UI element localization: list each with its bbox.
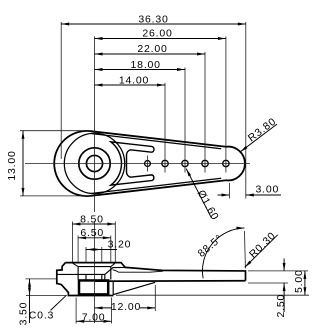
recess left corner chamfer	[73, 263, 78, 266]
dimension 22.00	[95, 43, 206, 55]
hole 0 vertical tick	[147, 156, 149, 172]
recess right corner chamfer	[111, 263, 115, 266]
vertical centerline through hub	[94, 37, 96, 213]
blade far-side top edge	[113, 270, 163, 273]
dimension 8.50	[72, 213, 115, 225]
svg-text:2.50: 2.50	[275, 294, 287, 318]
extension lines 6.50	[77, 236, 79, 263]
side view top outline (boss rim and blade top)	[66, 263, 246, 281]
extension line hole 4	[225, 37, 227, 173]
svg-text:18.00: 18.00	[131, 59, 161, 71]
dimension 14.00	[95, 75, 166, 87]
hub boss circle	[79, 148, 110, 179]
svg-text:3.20: 3.20	[108, 239, 132, 251]
dimension 3.00 (tip)	[218, 183, 282, 199]
extension line arm tip right edge	[245, 22, 247, 199]
extension line blade root bottom right	[248, 282, 288, 284]
extension lines 8.50	[71, 222, 73, 263]
extension line blade top right	[248, 270, 308, 272]
svg-text:6.50: 6.50	[80, 227, 104, 239]
extension lines 7.00	[75, 298, 77, 324]
fork lightening cutout	[111, 142, 154, 185]
dimension 6.50	[78, 227, 111, 239]
radius leader R3.80	[240, 115, 278, 151]
hub center hole	[86, 155, 102, 171]
arm hole 3	[202, 160, 208, 166]
extension lines 3.20	[85, 247, 87, 262]
blade root lower chamfer	[113, 282, 155, 294]
dimension 12.00	[95, 301, 156, 313]
svg-text:3.50: 3.50	[17, 302, 29, 326]
extension line hub left edge	[60, 22, 62, 159]
dimension 7.00	[76, 311, 111, 323]
hub neck step line	[57, 273, 105, 275]
hub body right edge	[112, 281, 114, 295]
angle dimension 88.5 degrees	[196, 228, 246, 278]
svg-text:22.00: 22.00	[137, 43, 167, 55]
svg-text:3.00: 3.00	[255, 184, 279, 196]
arm hole 1	[162, 160, 168, 166]
side view horizontal centerline	[26, 278, 58, 280]
chamfer note C0.3	[29, 296, 66, 322]
side view left profile of hub block	[57, 263, 114, 296]
svg-text:14.00: 14.00	[119, 75, 149, 87]
radius leader R0.30	[245, 230, 279, 268]
dimension 36.30	[61, 14, 246, 26]
svg-text:36.30: 36.30	[138, 14, 168, 26]
neck to blade transition diagonal	[105, 267, 126, 274]
svg-text:13.00: 13.00	[6, 150, 18, 180]
arm hole 0 (on tongue)	[145, 161, 151, 167]
svg-text:5.00: 5.00	[293, 269, 305, 293]
dimension 2.50	[275, 259, 287, 318]
hole diameter leader Ø1.60	[186, 169, 221, 223]
horizontal centerline of top view	[25, 163, 250, 165]
dimension 5.00	[293, 269, 305, 295]
svg-text:26.00: 26.00	[142, 28, 172, 40]
recess wall lines (6.50)	[77, 267, 79, 280]
horn outer outline (hub circle + tangent lines + tip arc R3.80)	[54, 131, 245, 196]
svg-text:8.50: 8.50	[80, 213, 104, 225]
horn inner rim line (hub inner circle)	[64, 133, 124, 193]
extension line hub bottom right	[116, 294, 309, 296]
recess wall lines (3.20)	[85, 274, 87, 279]
arm hole 2	[182, 160, 188, 166]
horn inner rim tangent lines and tip inner arc	[91, 134, 221, 194]
recess floor line	[78, 266, 111, 268]
svg-text:12.00: 12.00	[111, 301, 141, 313]
dimension 18.00	[95, 59, 186, 71]
dimension 3.20	[86, 239, 131, 251]
blade bottom edge	[95, 280, 246, 282]
extension line hole 2	[184, 68, 186, 173]
dimension 26.00	[95, 28, 226, 40]
side view vertical centerline	[94, 221, 96, 323]
dimension 13.00 (hub diameter, left)	[6, 131, 92, 196]
arm hole 4	[223, 160, 229, 166]
hub block right edge	[104, 274, 106, 281]
extension line hole 3	[204, 52, 206, 173]
dimension 3.50 (left)	[17, 279, 67, 325]
spline hole (thick walls)	[79, 280, 108, 294]
extension line 12.00 right	[154, 285, 156, 311]
svg-text:C0.3: C0.3	[29, 310, 54, 322]
extension line hole 1	[164, 83, 166, 173]
svg-text:7.00: 7.00	[82, 311, 106, 323]
